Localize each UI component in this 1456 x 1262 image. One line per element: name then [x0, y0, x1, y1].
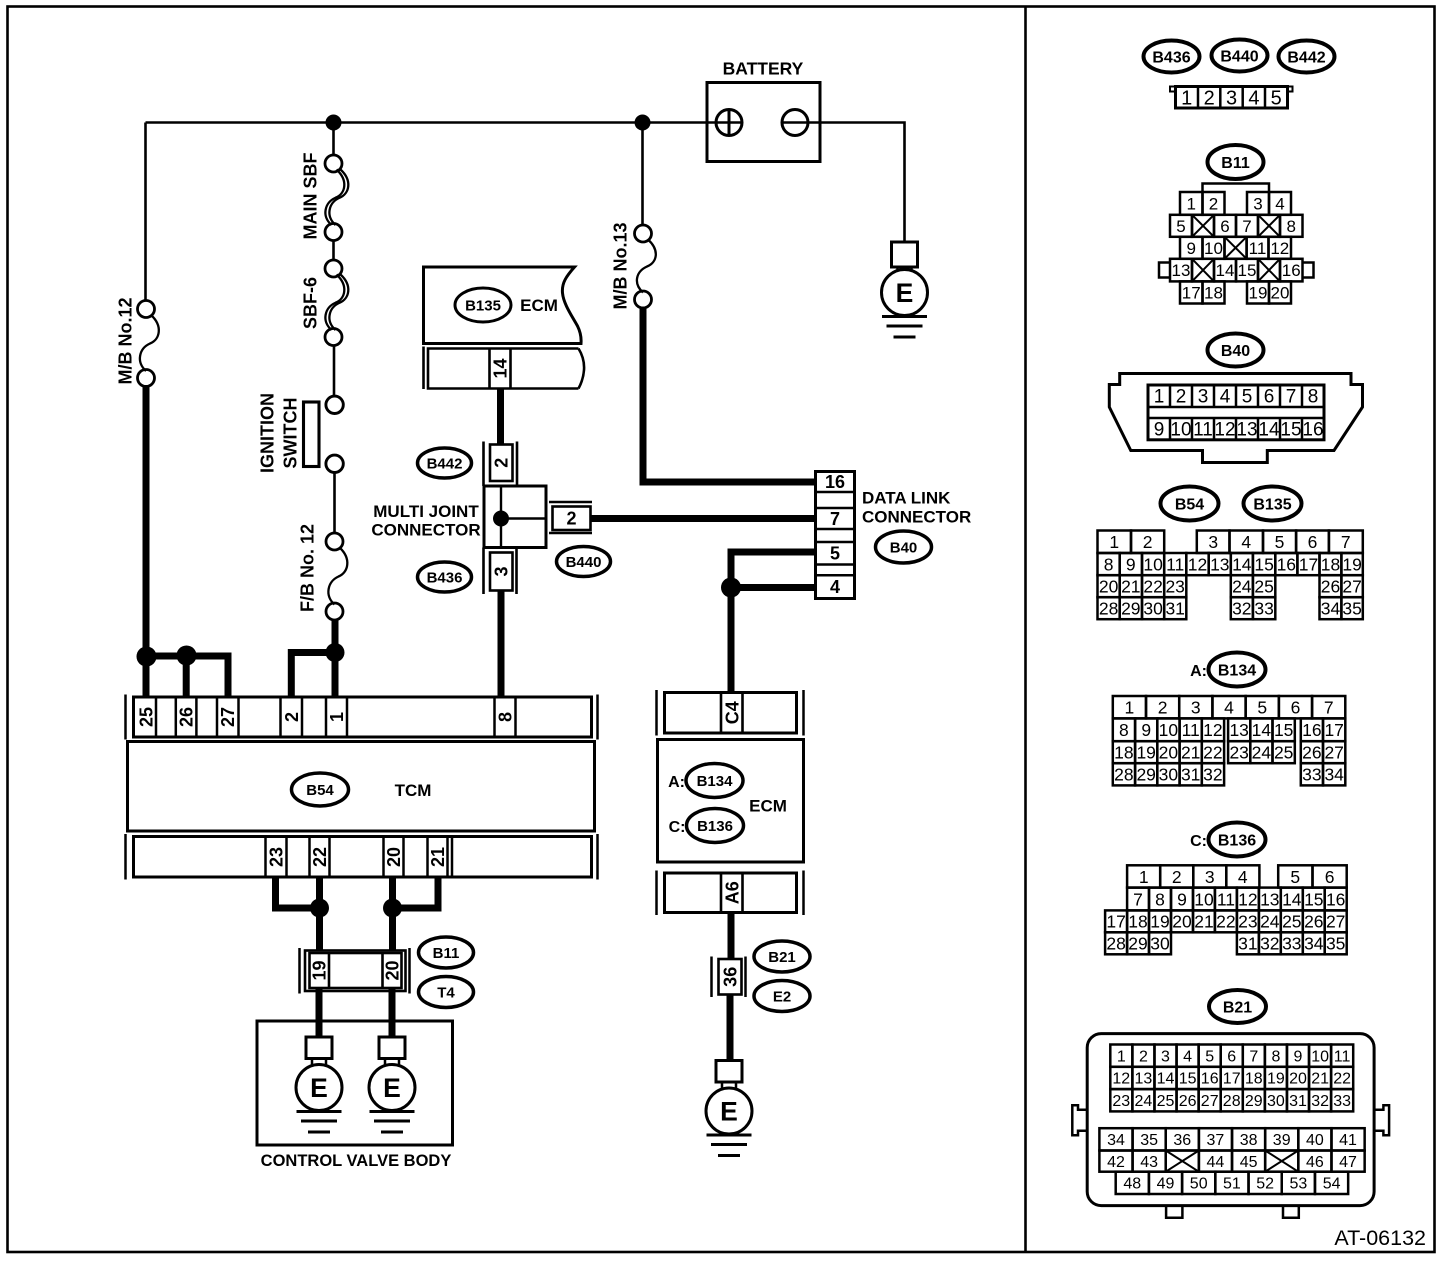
fuse SBF-6: [325, 260, 348, 346]
svg-text:2: 2: [1209, 195, 1218, 214]
svg-text:21: 21: [1194, 912, 1213, 932]
wire (thick): pin 36 to ground E: [727, 995, 734, 1061]
svg-text:C:: C:: [669, 819, 686, 836]
svg-text:9: 9: [1141, 720, 1151, 740]
svg-text:19: 19: [310, 960, 330, 980]
ECM bottom connector row (A6): [657, 871, 804, 916]
svg-text:E2: E2: [773, 988, 791, 1005]
label oval B135 (ref): [1244, 487, 1302, 521]
svg-text:24: 24: [1232, 577, 1252, 597]
svg-text:7: 7: [1249, 1048, 1258, 1065]
svg-text:23: 23: [1238, 912, 1257, 932]
svg-text:43: 43: [1140, 1154, 1158, 1171]
svg-text:B442: B442: [427, 455, 463, 472]
svg-text:54: 54: [1323, 1176, 1341, 1193]
svg-text:17: 17: [1106, 912, 1125, 932]
label oval B436 (ref): [1144, 41, 1200, 73]
svg-text:B11: B11: [1221, 155, 1250, 172]
wire (thick): MJC pin 2 to data link pin 7: [591, 515, 816, 522]
svg-text:4: 4: [1183, 1048, 1192, 1065]
svg-text:28: 28: [1106, 934, 1125, 954]
connector B21/E2 pin 36: [712, 957, 746, 998]
svg-text:B134: B134: [1218, 662, 1256, 679]
svg-text:23: 23: [1229, 743, 1248, 763]
svg-text:15: 15: [1274, 720, 1293, 740]
svg-text:24: 24: [1252, 743, 1272, 763]
svg-text:CONTROL VALVE BODY: CONTROL VALVE BODY: [261, 1152, 452, 1170]
svg-text:5: 5: [1275, 532, 1285, 552]
svg-text:5: 5: [1257, 698, 1267, 718]
svg-text:23: 23: [1112, 1093, 1130, 1110]
svg-text:7: 7: [1286, 387, 1297, 408]
connector view B21 pin grid: [1099, 1045, 1364, 1195]
wire (thick): ECM A6 to pin 36: [728, 913, 735, 960]
svg-text:1: 1: [1186, 195, 1195, 214]
svg-text:50: 50: [1190, 1176, 1208, 1193]
svg-text:29: 29: [1121, 599, 1140, 619]
svg-text:E: E: [310, 1073, 328, 1103]
svg-text:26: 26: [1179, 1093, 1197, 1110]
svg-text:3: 3: [1191, 698, 1201, 718]
svg-text:7: 7: [1242, 217, 1251, 236]
svg-text:1: 1: [1154, 387, 1165, 408]
svg-text:13: 13: [1172, 261, 1191, 280]
svg-text:12: 12: [1270, 239, 1289, 258]
svg-text:38: 38: [1240, 1132, 1258, 1149]
junction dot E2: [383, 899, 402, 918]
svg-text:31: 31: [1238, 934, 1257, 954]
svg-text:34: 34: [1324, 765, 1344, 785]
svg-text:33: 33: [1302, 765, 1321, 785]
svg-text:32: 32: [1203, 765, 1222, 785]
svg-text:35: 35: [1342, 599, 1361, 619]
fuse F/B No. 12: [326, 533, 347, 620]
svg-text:25: 25: [1282, 912, 1301, 932]
svg-text:34: 34: [1107, 1132, 1125, 1149]
connector B442 pin 2: [484, 442, 518, 487]
svg-text:27: 27: [1324, 743, 1343, 763]
svg-text:22: 22: [310, 847, 330, 867]
svg-text:30: 30: [1267, 1093, 1285, 1110]
svg-text:16: 16: [1302, 420, 1323, 441]
svg-text:16: 16: [825, 472, 845, 492]
svg-text:2: 2: [1139, 1048, 1148, 1065]
ignition switch: [304, 396, 344, 472]
label oval B440 (ref): [1212, 40, 1268, 72]
svg-text:6: 6: [1227, 1048, 1236, 1065]
svg-text:13: 13: [1260, 889, 1279, 909]
svg-text:23: 23: [1165, 577, 1184, 597]
svg-text:12: 12: [1188, 554, 1207, 574]
svg-text:F/B No. 12: F/B No. 12: [298, 524, 318, 612]
svg-text:5: 5: [1271, 87, 1282, 109]
svg-text:1: 1: [1117, 1048, 1126, 1065]
svg-text:3: 3: [492, 566, 512, 576]
svg-text:M/B No.13: M/B No.13: [611, 222, 631, 309]
svg-text:14: 14: [1232, 554, 1252, 574]
svg-text:14: 14: [1282, 889, 1302, 909]
wire (thick): data link pins 5,4 to ECM C4: [731, 552, 816, 693]
svg-text:14: 14: [1252, 720, 1272, 740]
svg-text:11: 11: [1193, 420, 1213, 441]
svg-text:36: 36: [1173, 1132, 1191, 1149]
wire: SBF-6 to ignition switch: [333, 345, 336, 397]
svg-text:7: 7: [830, 509, 840, 529]
svg-text:14: 14: [1216, 261, 1235, 280]
svg-text:42: 42: [1107, 1154, 1125, 1171]
svg-text:B40: B40: [890, 539, 918, 556]
label oval B11: [419, 937, 474, 968]
svg-text:20: 20: [1271, 284, 1290, 303]
svg-text:15: 15: [1304, 889, 1323, 909]
svg-text:E: E: [720, 1097, 738, 1127]
svg-text:6: 6: [1291, 698, 1301, 718]
svg-text:6: 6: [1264, 387, 1275, 408]
svg-text:32: 32: [1260, 934, 1279, 954]
wire: MAIN SBF to SBF-6: [332, 240, 335, 262]
svg-text:16: 16: [1201, 1071, 1219, 1088]
connector view B40 (data link): [1109, 374, 1362, 463]
svg-text:41: 41: [1339, 1132, 1357, 1149]
svg-text:3: 3: [1198, 387, 1209, 408]
svg-text:MAIN SBF: MAIN SBF: [301, 153, 321, 240]
svg-text:15: 15: [1280, 420, 1301, 441]
wire: battery negative to ground: [782, 123, 905, 243]
svg-text:B436: B436: [1152, 49, 1190, 66]
svg-text:21: 21: [428, 847, 448, 867]
svg-text:13: 13: [1236, 420, 1257, 441]
svg-text:21: 21: [1181, 743, 1200, 763]
connector B11/T4 pins 19,20: [300, 948, 410, 994]
ground: E2 (E): [706, 1061, 752, 1156]
svg-text:12: 12: [1112, 1071, 1130, 1088]
junction dot D: [721, 578, 741, 598]
svg-text:5: 5: [1205, 1048, 1214, 1065]
svg-text:19: 19: [1249, 284, 1268, 303]
svg-text:1: 1: [1139, 867, 1149, 887]
svg-text:ECM: ECM: [520, 296, 558, 315]
label oval T4: [419, 977, 474, 1008]
svg-text:3: 3: [1253, 195, 1262, 214]
svg-text:B135: B135: [1253, 496, 1291, 513]
wire (thick): B11 pin 19 to solenoid 1: [316, 988, 323, 1037]
svg-text:5: 5: [1242, 387, 1253, 408]
svg-text:B40: B40: [1221, 343, 1250, 360]
label oval B21 (wire): [754, 941, 810, 972]
svg-text:IGNITION: IGNITION: [258, 393, 278, 473]
svg-text:MULTI JOINT: MULTI JOINT: [373, 502, 479, 521]
svg-text:B21: B21: [1223, 999, 1252, 1016]
svg-text:26: 26: [1304, 912, 1323, 932]
svg-text:17: 17: [1223, 1071, 1241, 1088]
svg-text:8: 8: [1104, 554, 1114, 574]
svg-text:8: 8: [1271, 1048, 1280, 1065]
wire (thick): TCM pin 22 to B11 pin 19: [316, 877, 323, 951]
svg-text:4: 4: [1238, 867, 1248, 887]
svg-text:22: 22: [1143, 577, 1162, 597]
svg-text:13: 13: [1135, 1071, 1153, 1088]
svg-text:6: 6: [1308, 532, 1318, 552]
svg-text:8: 8: [1155, 889, 1165, 909]
svg-text:22: 22: [1333, 1071, 1351, 1088]
svg-text:2: 2: [492, 458, 512, 468]
label oval B136: [687, 809, 744, 843]
svg-text:9: 9: [1294, 1048, 1303, 1065]
fuse M/B No.12: [138, 301, 159, 387]
connector view B21 body: [1072, 1034, 1389, 1218]
svg-text:14: 14: [491, 358, 511, 378]
data link connector B40: [816, 472, 855, 599]
label oval B21 (ref): [1209, 990, 1266, 1023]
wire: drop to fuse M/B No.12: [144, 123, 147, 302]
label oval B40: [876, 531, 932, 563]
svg-text:18: 18: [1321, 554, 1340, 574]
label oval B54 (TCM): [292, 773, 349, 806]
svg-text:31: 31: [1165, 599, 1184, 619]
svg-text:27: 27: [218, 707, 238, 727]
svg-text:28: 28: [1223, 1093, 1241, 1110]
svg-text:32: 32: [1311, 1093, 1329, 1110]
svg-text:44: 44: [1207, 1154, 1225, 1171]
svg-text:30: 30: [1143, 599, 1163, 619]
svg-text:9: 9: [1186, 239, 1195, 258]
svg-text:5: 5: [1290, 867, 1300, 887]
wire (thick): TCM pin 21 to junction: [393, 877, 439, 908]
svg-text:25: 25: [1274, 743, 1293, 763]
svg-text:19: 19: [1342, 554, 1361, 574]
svg-text:B134: B134: [697, 773, 734, 790]
ECM top connector row (C4): [657, 690, 804, 736]
svg-text:8: 8: [1308, 387, 1319, 408]
svg-text:24: 24: [1260, 912, 1280, 932]
control valve body box: [257, 1021, 453, 1145]
svg-text:11: 11: [1166, 554, 1184, 574]
wire (thick): bus to TCM pins 26, 27: [146, 656, 228, 697]
svg-text:17: 17: [1324, 720, 1343, 740]
svg-text:SWITCH: SWITCH: [281, 398, 301, 469]
svg-text:29: 29: [1128, 934, 1147, 954]
svg-text:24: 24: [1135, 1093, 1153, 1110]
label oval B442 (ref): [1279, 41, 1335, 73]
svg-text:12: 12: [1238, 889, 1257, 909]
svg-text:B21: B21: [768, 949, 796, 966]
junction dot MJC: [493, 511, 509, 527]
svg-text:1: 1: [1109, 532, 1119, 552]
svg-text:10: 10: [1194, 889, 1214, 909]
svg-text:20: 20: [1172, 912, 1192, 932]
svg-text:51: 51: [1223, 1176, 1241, 1193]
svg-text:10: 10: [1204, 239, 1223, 258]
svg-text:49: 49: [1157, 1176, 1175, 1193]
label DATA LINK CONNECTOR: [862, 489, 971, 527]
svg-text:27: 27: [1342, 577, 1361, 597]
svg-text:16: 16: [1277, 554, 1296, 574]
label oval E2: [754, 981, 810, 1012]
wire (thick): F/B No.12 to TCM pin 1: [332, 619, 339, 697]
svg-text:52: 52: [1256, 1176, 1274, 1193]
svg-text:25: 25: [1254, 577, 1273, 597]
wire (thick): B11 pin 20 to solenoid 2: [389, 988, 396, 1037]
svg-text:BATTERY: BATTERY: [723, 59, 804, 79]
svg-text:2: 2: [1204, 87, 1215, 109]
svg-text:2: 2: [1158, 698, 1168, 718]
connector view A: B134 pin grid: [1113, 696, 1346, 785]
ground: battery negative (E): [882, 242, 928, 337]
label oval B135: [455, 288, 511, 322]
svg-text:15: 15: [1179, 1071, 1197, 1088]
svg-text:B440: B440: [566, 554, 602, 571]
svg-text:28: 28: [1114, 765, 1133, 785]
svg-text:11: 11: [1334, 1048, 1351, 1065]
fuse M/B No.13: [635, 225, 656, 308]
svg-text:20: 20: [1289, 1071, 1307, 1088]
svg-text:DATA LINK: DATA LINK: [862, 489, 951, 508]
svg-text:18: 18: [1128, 912, 1147, 932]
junction dot E1: [310, 899, 329, 918]
svg-text:15: 15: [1254, 554, 1273, 574]
wire (thick): branch to TCM pin 2: [291, 653, 335, 698]
svg-text:CONNECTOR: CONNECTOR: [371, 521, 480, 540]
svg-text:20: 20: [383, 960, 403, 980]
svg-text:5: 5: [830, 544, 840, 564]
fuse MAIN SBF: [325, 155, 348, 241]
svg-text:4: 4: [1224, 698, 1234, 718]
svg-text:29: 29: [1136, 765, 1155, 785]
ground: solenoid 1 (E): [296, 1037, 342, 1132]
svg-text:4: 4: [1275, 195, 1284, 214]
svg-text:2: 2: [566, 509, 576, 529]
svg-text:30: 30: [1159, 765, 1179, 785]
multi joint connector body: [484, 486, 546, 548]
label oval B436: [418, 562, 472, 592]
svg-text:36: 36: [721, 967, 741, 987]
svg-text:31: 31: [1289, 1093, 1307, 1110]
svg-text:19: 19: [1150, 912, 1169, 932]
svg-text:20: 20: [1159, 743, 1179, 763]
svg-text:13: 13: [1210, 554, 1229, 574]
svg-text:35: 35: [1326, 934, 1345, 954]
svg-text:16: 16: [1302, 720, 1321, 740]
wire (thick): M/B No.13 to data link pin 16: [643, 307, 816, 483]
svg-text:9: 9: [1177, 889, 1187, 909]
svg-text:45: 45: [1240, 1154, 1258, 1171]
svg-text:12: 12: [1214, 420, 1235, 441]
svg-text:1: 1: [1125, 698, 1135, 718]
svg-text:26: 26: [177, 707, 197, 727]
svg-text:30: 30: [1150, 934, 1170, 954]
svg-text:9: 9: [1154, 420, 1165, 441]
svg-text:E: E: [896, 278, 914, 308]
ECM B135 box: [424, 267, 582, 344]
svg-text:22: 22: [1203, 743, 1222, 763]
svg-text:32: 32: [1232, 599, 1251, 619]
connector view B11 pin grid: [1159, 184, 1314, 304]
label oval B134: [686, 764, 743, 798]
svg-text:27: 27: [1326, 912, 1345, 932]
svg-text:1: 1: [327, 712, 347, 722]
svg-text:10: 10: [1311, 1048, 1329, 1065]
svg-text:3: 3: [1205, 867, 1215, 887]
svg-text:46: 46: [1306, 1154, 1324, 1171]
svg-text:37: 37: [1207, 1132, 1225, 1149]
svg-text:20: 20: [1099, 577, 1119, 597]
svg-text:47: 47: [1339, 1154, 1357, 1171]
wire (thick): MJC pin 3 to TCM pin 8: [498, 591, 505, 698]
svg-text:21: 21: [1311, 1071, 1329, 1088]
junction dot B: [177, 646, 197, 666]
svg-text:33: 33: [1282, 934, 1301, 954]
svg-text:4: 4: [1220, 387, 1231, 408]
svg-text:AT-06132: AT-06132: [1334, 1226, 1426, 1250]
junction dot C: [326, 643, 345, 662]
svg-text:31: 31: [1181, 765, 1200, 785]
svg-text:17: 17: [1182, 284, 1201, 303]
svg-text:E: E: [383, 1073, 401, 1103]
wire: drop to M/B No.13: [641, 123, 644, 227]
svg-text:53: 53: [1290, 1176, 1308, 1193]
svg-text:2: 2: [282, 712, 302, 722]
svg-text:26: 26: [1321, 577, 1340, 597]
svg-text:ECM: ECM: [749, 797, 787, 816]
svg-text:25: 25: [1157, 1093, 1175, 1110]
svg-text:B436: B436: [427, 569, 463, 586]
svg-text:B54: B54: [1175, 496, 1204, 513]
svg-text:22: 22: [1216, 912, 1235, 932]
wire (thick): TCM pin 23 to junction: [276, 877, 320, 908]
svg-text:35: 35: [1140, 1132, 1158, 1149]
svg-text:16: 16: [1326, 889, 1345, 909]
svg-text:3: 3: [1208, 532, 1218, 552]
junction: MAIN SBF tap: [326, 115, 342, 131]
svg-text:16: 16: [1282, 261, 1301, 280]
svg-text:19: 19: [1136, 743, 1155, 763]
svg-text:33: 33: [1254, 599, 1273, 619]
svg-text:26: 26: [1302, 743, 1321, 763]
svg-text:5: 5: [1176, 217, 1185, 236]
svg-text:27: 27: [1201, 1093, 1219, 1110]
wire: drop to MAIN SBF: [332, 123, 335, 157]
svg-text:34: 34: [1304, 934, 1324, 954]
svg-text:13: 13: [1229, 720, 1248, 740]
wire: battery positive top bus: [146, 121, 743, 124]
svg-text:18: 18: [1114, 743, 1133, 763]
svg-text:6: 6: [1220, 217, 1229, 236]
svg-text:39: 39: [1273, 1132, 1291, 1149]
svg-text:18: 18: [1245, 1071, 1263, 1088]
label oval B442: [418, 448, 472, 478]
svg-text:33: 33: [1333, 1093, 1351, 1110]
connector B440 pin 2: [549, 502, 592, 533]
wire (thick): ECM pin 14 to B442 pin 2: [497, 389, 504, 446]
svg-text:10: 10: [1143, 554, 1163, 574]
svg-text:11: 11: [1182, 720, 1200, 740]
svg-text:B136: B136: [1218, 832, 1256, 849]
junction dot A: [137, 647, 157, 667]
junction: M/B No.13 tap: [635, 115, 651, 131]
svg-text:25: 25: [136, 707, 156, 727]
wire: ignition switch to F/B No.12: [333, 473, 336, 534]
svg-text:11: 11: [1249, 239, 1267, 258]
svg-text:B135: B135: [465, 297, 501, 314]
svg-text:21: 21: [1121, 577, 1140, 597]
svg-text:B11: B11: [433, 945, 460, 962]
svg-text:B54: B54: [306, 782, 334, 799]
svg-text:A6: A6: [722, 881, 742, 904]
svg-text:2: 2: [1172, 867, 1182, 887]
svg-text:6: 6: [1325, 867, 1335, 887]
svg-text:T4: T4: [437, 984, 455, 1001]
svg-text:2: 2: [1143, 532, 1153, 552]
